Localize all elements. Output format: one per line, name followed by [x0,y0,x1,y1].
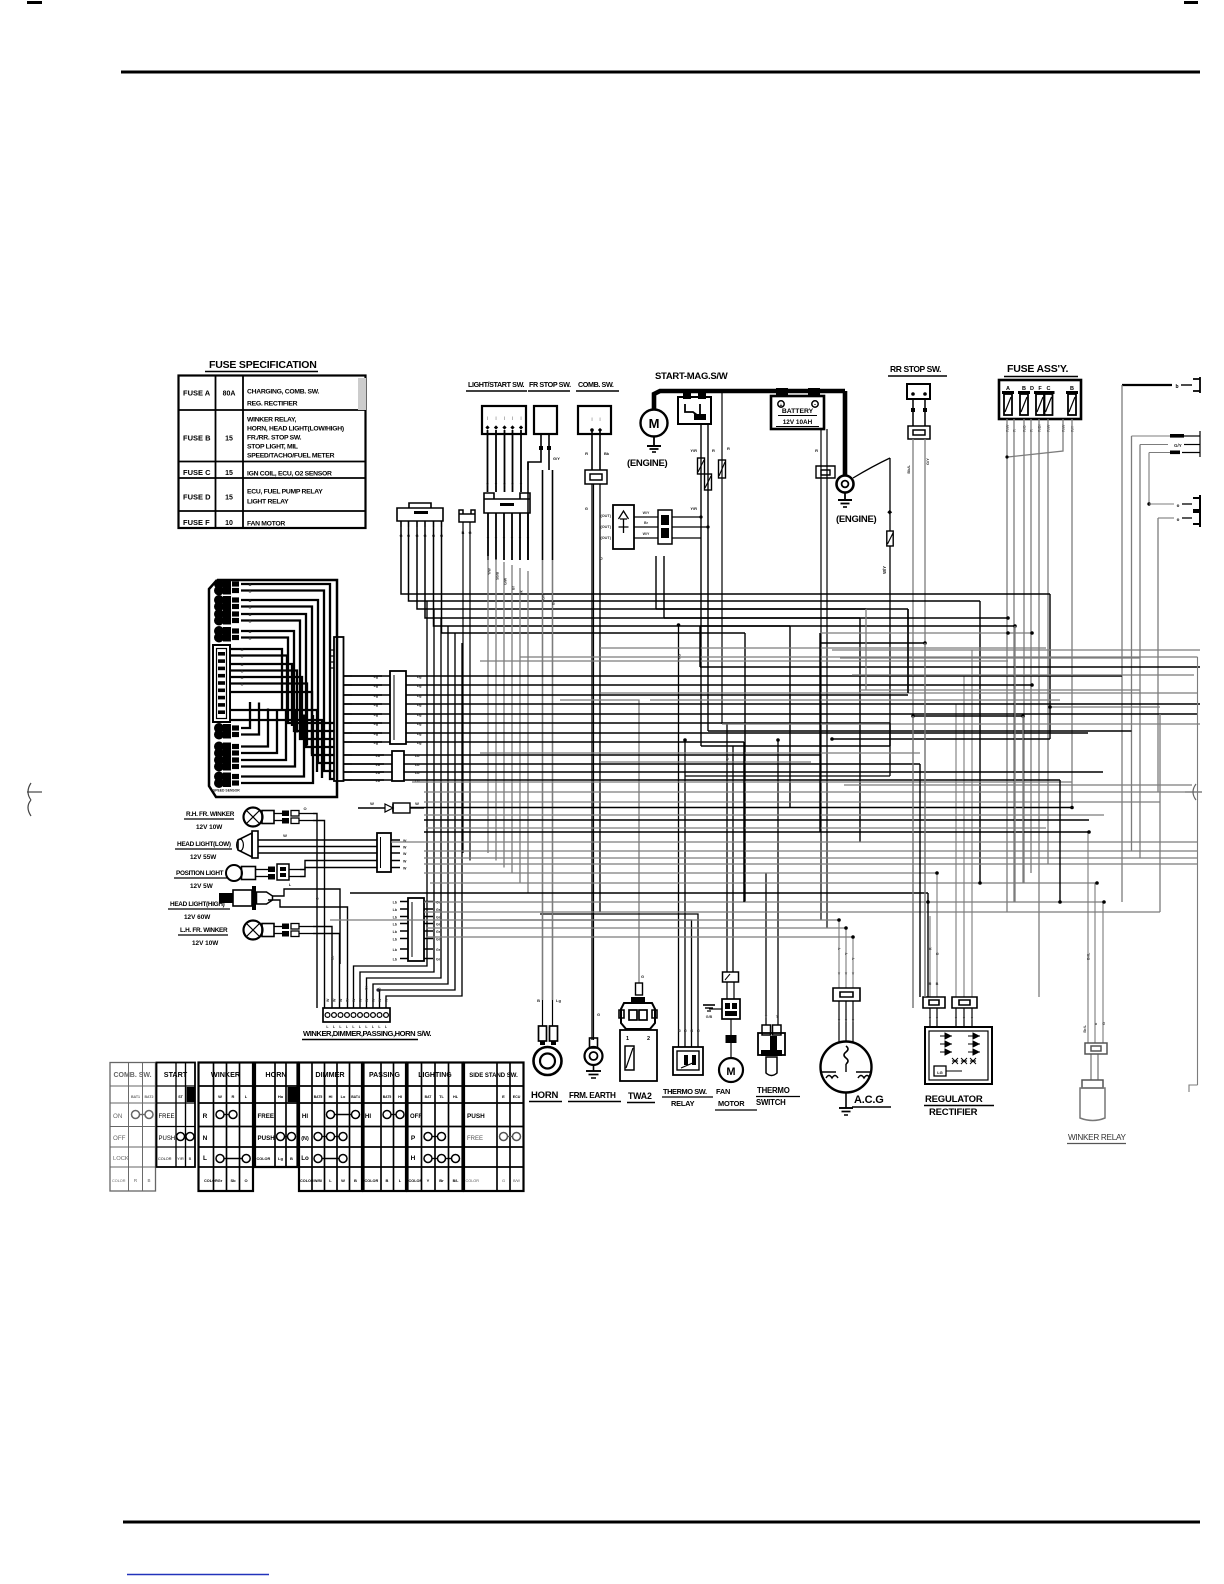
svg-text:G/B: G/B [706,1015,713,1019]
svg-text:W: W [283,833,287,838]
fan motor lead [730,1019,732,1035]
svg-text:COLOR: COLOR [409,1179,423,1183]
svg-text:W: W [403,859,407,863]
svg-text:B: B [678,1029,682,1032]
fr stop switch wires [540,434,542,446]
svg-text:ST: ST [178,1095,183,1099]
svg-text:b: b [1175,384,1178,390]
svg-text:Sb: Sb [230,1178,236,1183]
svg-text:|: | [504,415,505,420]
start-mag inline fuse 2 [705,474,712,490]
svg-text:15: 15 [225,436,233,443]
twa2 wire [560,700,639,983]
svg-text:Gr: Gr [436,908,441,912]
starter motor M circle [641,410,668,437]
svg-text:R: R [727,446,730,451]
svg-text:B: B [697,1029,701,1032]
svg-text:HL: HL [453,1095,459,1099]
right edge connector o1 [1147,502,1150,505]
svg-text:FR./RR. STOP SW.: FR./RR. STOP SW. [247,435,302,442]
svg-text:W: W [359,998,363,1002]
cluster wire labels [241,583,252,687]
table comb sw [110,1063,156,1192]
svg-text:DIMMER: DIMMER [315,1070,345,1079]
svg-text:Gr: Gr [365,985,369,990]
battery wire connector [816,466,835,478]
svg-text:L: L [203,1155,207,1162]
svg-text:Gr: Gr [218,1178,223,1183]
svg-text:W: W [415,801,419,806]
rh winker drop wires [313,814,317,1009]
svg-text:HORN: HORN [531,1090,559,1101]
svg-text:O: O [303,806,306,811]
start-mag output wires [700,424,702,746]
svg-text:W: W [385,998,389,1002]
svg-text:SPEED/TACHO/FUEL METER: SPEED/TACHO/FUEL METER [247,453,335,460]
lh front winker bulb [244,921,263,940]
diode unit top left [613,505,634,549]
svg-text:Bl: Bl [552,601,556,605]
thermo switch body [762,1025,771,1035]
position light drops [300,861,377,870]
svg-text:A.C.G: A.C.G [854,1094,884,1106]
svg-text:W: W [403,852,407,856]
svg-text:G/Y: G/Y [1174,443,1182,448]
svg-text:O: O [244,1178,247,1183]
svg-text:P: P [411,1135,416,1142]
svg-text:G: G [641,974,644,979]
svg-text:G/Y: G/Y [553,456,560,461]
svg-text:FAN MOTOR: FAN MOTOR [247,521,285,528]
svg-text:Y: Y [520,482,523,487]
svg-text:FUSE F: FUSE F [183,518,210,527]
svg-text:W: W [341,1178,345,1183]
frame earth ground [593,1065,595,1071]
svg-text:W/Y: W/Y [882,566,887,574]
svg-text:B/W: B/W [513,1179,520,1183]
svg-text:ECU: ECU [513,1095,521,1099]
page top-right dash [1184,1,1198,4]
lh front winker pins [274,926,282,928]
svg-text:W: W [378,998,382,1002]
svg-text:12V 10W: 12V 10W [192,940,219,947]
svg-text:BATTERY: BATTERY [782,408,814,415]
svg-text:H: H [411,1155,416,1162]
svg-text:COLOR: COLOR [466,1179,480,1183]
svg-text:Y: Y [838,1019,841,1023]
mid connector B [392,751,404,781]
svg-text:REGULATOR: REGULATOR [925,1094,983,1105]
svg-text:WINKER,DIMMER,PASSING,HORN S/W: WINKER,DIMMER,PASSING,HORN S/W. [303,1029,431,1038]
svg-text:Y: Y [519,536,522,541]
svg-text:80A: 80A [223,391,236,398]
svg-text:B: B [249,583,252,587]
svg-text:HI: HI [365,1113,371,1120]
svg-text:B: B [249,613,252,617]
rh front winker pins [274,813,282,815]
thermo sw relay box [673,1047,703,1075]
svg-text:THERMO: THERMO [757,1086,790,1095]
page top-left dash [27,1,42,4]
svg-text:R: R [712,448,715,453]
twa2 inline connector [636,983,643,995]
svg-text:HORN, HEAD LIGHT(LOW/HIGH): HORN, HEAD LIGHT(LOW/HIGH) [247,426,344,433]
svg-text:(OUT): (OUT) [600,525,611,529]
svg-text:FUSE D: FUSE D [183,493,211,502]
right margin break mark [1185,791,1202,793]
svg-text:R: R [203,1113,208,1120]
headlight low bulb [238,833,252,857]
ign wire with fuse [721,391,723,724]
svg-text:|: | [495,415,496,420]
svg-text:FRM. EARTH: FRM. EARTH [569,1091,616,1100]
fuse assy box [999,380,1081,419]
light/start switch wires [487,430,489,492]
svg-text:Y/R: Y/R [690,448,697,453]
svg-text:LOCK: LOCK [113,1156,129,1162]
cluster inner connector [213,645,230,722]
svg-text:B: B [189,1156,192,1161]
svg-text:Gr: Gr [436,930,441,934]
comb switch connector [585,470,607,484]
table horn [255,1063,298,1168]
svg-text:Br/L: Br/L [1083,1024,1087,1032]
aux drop wires [462,522,464,853]
svg-text:FREE: FREE [467,1136,483,1142]
svg-text:IGN COIL, ECU, O2 SENSOR: IGN COIL, ECU, O2 SENSOR [247,471,332,478]
strip feed wire segs [354,601,463,1008]
svg-text:LIGHTING: LIGHTING [418,1072,452,1079]
svg-text:Y: Y [852,972,855,976]
acg wires [838,920,840,988]
svg-text:HI: HI [302,1113,308,1120]
svg-text:B: B [249,620,252,624]
svg-text:BAT5: BAT5 [314,1095,323,1099]
mesh junction dots [1030,683,1034,687]
svg-text:|: | [487,415,488,420]
svg-text:BAT2: BAT2 [144,1095,153,1099]
svg-text:(ENGINE): (ENGINE) [836,514,876,525]
fr stop switch [534,406,557,434]
svg-text:|: | [520,415,521,420]
svg-text:G: G [502,1178,505,1183]
regulator rectifier diodes [940,1033,952,1039]
fan motor wires [726,724,728,972]
svg-text:W: W [365,998,369,1002]
winker relay wires [1087,832,1089,1043]
svg-text:G/W: G/W [504,577,508,585]
svg-text:W: W [333,998,337,1002]
rr stop connector [908,426,930,439]
svg-text:THERMO SW.: THERMO SW. [663,1087,707,1096]
svg-text:Br: Br [512,585,516,590]
svg-text:G: G [1102,1022,1106,1025]
svg-text:LIGHT/START SW.: LIGHT/START SW. [468,380,525,389]
twa2 plug [621,1003,655,1029]
svg-text:G: G [585,506,588,511]
svg-text:Gr: Gr [436,937,441,941]
svg-text:Lg: Lg [556,998,561,1003]
svg-text:PUSH: PUSH [258,1135,276,1142]
svg-text:o: o [1177,503,1180,508]
frame earth wire [593,484,595,1040]
thick battery bus [654,391,845,410]
position light bulb [226,865,242,881]
svg-text:WINKER: WINKER [211,1070,241,1079]
start-mag inline fuse 1 [698,458,705,474]
svg-text:TWA2: TWA2 [628,1091,652,1101]
left margin break mark [28,783,31,816]
svg-text:R: R [929,982,932,986]
svg-text:FUSE SPECIFICATION: FUSE SPECIFICATION [209,359,317,371]
svg-text:Y: Y [845,972,848,976]
svg-text:POSITION LIGHT: POSITION LIGHT [176,870,224,877]
svg-text:D: D [1030,386,1034,392]
svg-text:Y: Y [852,1019,855,1023]
svg-text:Y: Y [838,972,841,976]
svg-text:G: G [597,1012,600,1017]
position light pins [256,869,269,871]
svg-text:W: W [352,998,356,1002]
svg-text:15: 15 [225,495,233,502]
svg-text:Y: Y [487,536,490,541]
fan motor M [719,1058,743,1082]
svg-text:W: W [339,998,343,1002]
diode unit wires [634,516,658,518]
rh front winker bulb [244,808,263,827]
svg-text:Sb/B: Sb/B [496,571,500,580]
assorted wire labels [316,557,1091,992]
fan ground symbol [709,1008,722,1010]
instrument cluster outline [209,580,337,797]
svg-text:|: | [512,415,513,420]
svg-text:Gr: Gr [436,957,441,961]
svg-text:COLOR: COLOR [112,1179,126,1183]
headlight high bulb [219,893,233,903]
svg-text:G: G [241,683,244,687]
left 6p connector [397,503,443,521]
winker dimmer connector [408,898,424,961]
svg-text:10: 10 [225,520,233,527]
svg-text:MOTOR: MOTOR [718,1099,745,1108]
svg-text:R: R [815,448,818,453]
svg-text:Y/G: Y/G [678,654,682,660]
svg-text:ON: ON [113,1113,122,1120]
horizontal mesh runs [330,609,1200,937]
table winker [199,1063,254,1192]
svg-text:FAN: FAN [716,1087,730,1096]
staircase drops [1049,594,1051,739]
svg-text:RR STOP SW.: RR STOP SW. [890,364,941,374]
svg-text:B: B [684,1029,688,1032]
rr stop lower wires [912,439,914,1008]
svg-text:LIGHT RELAY: LIGHT RELAY [247,499,289,506]
engine ring ground [844,493,846,500]
regulator rectifier box [925,1027,992,1084]
svg-text:START-MAG.S/W: START-MAG.S/W [655,371,728,382]
svg-text:Lg: Lg [278,1156,283,1161]
extra mesh rows [412,648,1198,828]
svg-text:|: | [599,416,600,421]
svg-text:B: B [249,590,252,594]
svg-text:FUSE A: FUSE A [183,389,211,398]
svg-text:COLOR: COLOR [365,1179,379,1183]
cluster lamp glyphs [214,579,224,589]
headlight connector [377,833,391,872]
acg body [821,1042,872,1093]
svg-text:G: G [241,676,244,680]
svg-text:G: G [600,557,604,560]
cluster strip right stubs [344,675,353,677]
svg-text:Br: Br [644,521,649,525]
acg connector [833,988,860,1001]
svg-text:W: W [370,801,374,806]
svg-text:15: 15 [225,470,233,477]
svg-text:W: W [326,998,330,1002]
svg-text:G: G [241,670,244,674]
svg-text:FUSE ASS'Y.: FUSE ASS'Y. [1007,363,1068,375]
svg-text:COMB. SW.: COMB. SW. [578,380,614,389]
svg-text:W/Bl: W/Bl [314,1179,322,1183]
svg-text:B: B [537,998,540,1003]
svg-text:COLOR: COLOR [300,1179,314,1183]
svg-text:Bk: Bk [604,451,610,456]
light/start connector pins [487,513,489,560]
svg-text:Ho: Ho [278,1094,284,1099]
right long verticals [1197,657,1199,1085]
svg-text:Gr: Gr [436,948,441,952]
svg-text:HEAD LIGHT(HIGH): HEAD LIGHT(HIGH) [170,901,225,908]
svg-text:COMB. SW.: COMB. SW. [113,1072,151,1079]
svg-text:(ENGINE): (ENGINE) [627,458,667,469]
horn spade terminals [539,1026,547,1041]
svg-text:12V 60W: 12V 60W [184,914,211,921]
svg-text:Y: Y [503,536,506,541]
fuse specification table frame [179,376,366,529]
battery sense wires [820,429,822,920]
fuse table shadow [358,378,366,410]
svg-text:FREE: FREE [258,1113,275,1120]
svg-text:TL: TL [439,1095,444,1099]
fan motor fuse [723,972,739,982]
comb switch lower wires [591,484,593,1040]
svg-text:|: | [591,416,592,421]
svg-text:HEAD LIGHT(LOW): HEAD LIGHT(LOW) [177,841,231,848]
bottom rule [123,1521,1200,1524]
svg-text:Bk: Bk [520,590,524,595]
engine ring terminal [837,476,854,493]
strip feed wires drawn [399,901,401,903]
svg-text:R: R [232,1094,235,1099]
svg-text:12V 10AH: 12V 10AH [783,419,813,426]
svg-text:W/Y: W/Y [643,532,650,536]
comb switch wires [591,431,593,470]
svg-text:Y: Y [495,482,498,487]
svg-text:M: M [649,416,660,431]
svg-text:WINKER RELAY,: WINKER RELAY, [247,417,297,424]
svg-text:(OUT): (OUT) [600,514,611,518]
footer blue underline [127,1574,269,1576]
svg-text:B: B [249,637,252,641]
svg-text:-: - [814,403,816,409]
winker relay connector [1085,1043,1107,1054]
svg-text:12V 10W: 12V 10W [196,824,223,831]
svg-text:BAT1: BAT1 [131,1095,140,1099]
svg-text:Br: Br [439,1178,444,1183]
table passing [364,1063,407,1192]
svg-text:W: W [218,1094,222,1099]
svg-text:RELAY: RELAY [671,1099,695,1108]
twa2 body [620,1030,657,1081]
svg-text:PUSH: PUSH [159,1136,176,1142]
svg-text:SWITCH: SWITCH [756,1098,786,1107]
svg-text:FUSE B: FUSE B [183,434,211,443]
right edge wire b drop [1121,385,1123,902]
svg-text:B/L: B/L [453,1179,460,1183]
svg-text:FUSE C: FUSE C [183,468,211,477]
svg-text:Y: Y [427,1178,430,1183]
svg-text:Br/L: Br/L [1087,952,1091,960]
svg-text:R: R [929,947,933,950]
comb switch [578,406,611,434]
svg-text:M: M [726,1066,735,1078]
svg-text:Bk/L: Bk/L [906,464,911,473]
svg-text:W: W [346,998,350,1002]
svg-text:START: START [164,1070,188,1079]
svg-text:o: o [1177,517,1180,522]
svg-text:L.H. FR. WINKER: L.H. FR. WINKER [180,927,228,934]
regulator wires [929,916,931,997]
svg-text:FREE: FREE [159,1114,175,1120]
svg-text:HI: HI [329,1095,333,1099]
svg-text:Lo: Lo [341,1095,346,1099]
svg-text:BAT4: BAT4 [351,1095,360,1099]
svg-text:12V 5W: 12V 5W [190,883,214,890]
thermo switch wires [765,873,767,1025]
svg-text:B: B [354,1178,357,1183]
cluster strip connector [334,637,344,781]
mid connector A feed wires [352,675,382,677]
table side stand [464,1063,524,1192]
svg-text:BAT: BAT [425,1095,433,1099]
light start drop wires [488,556,528,893]
svg-text:HI: HI [398,1095,402,1099]
svg-text:N: N [203,1135,208,1142]
rr stop switch wires [912,399,914,426]
svg-text:B: B [386,1178,389,1183]
acg ground [845,1092,847,1108]
svg-text:HORN: HORN [265,1070,286,1079]
cluster internal wires [230,584,334,783]
svg-text:12V 55W: 12V 55W [190,854,217,861]
svg-text:LG: LG [937,1070,943,1075]
svg-text:OFF: OFF [410,1114,422,1120]
svg-text:B: B [936,982,939,986]
svg-text:SIDE STAND SW.: SIDE STAND SW. [469,1073,518,1079]
winker dimmer passing horn strip [323,1008,390,1022]
svg-text:W/Y: W/Y [643,511,650,515]
svg-text:Y: Y [511,536,514,541]
svg-text:Y: Y [503,482,506,487]
start-mag switch box [678,397,711,424]
horn wires [542,470,544,1026]
table dimmer [299,1063,362,1192]
svg-text:B: B [249,606,252,610]
upper staircase wires [401,527,1050,633]
vertical mesh runs [656,556,1160,1008]
thermo sw relay wires [678,625,680,1047]
starter motor ground [653,436,655,446]
